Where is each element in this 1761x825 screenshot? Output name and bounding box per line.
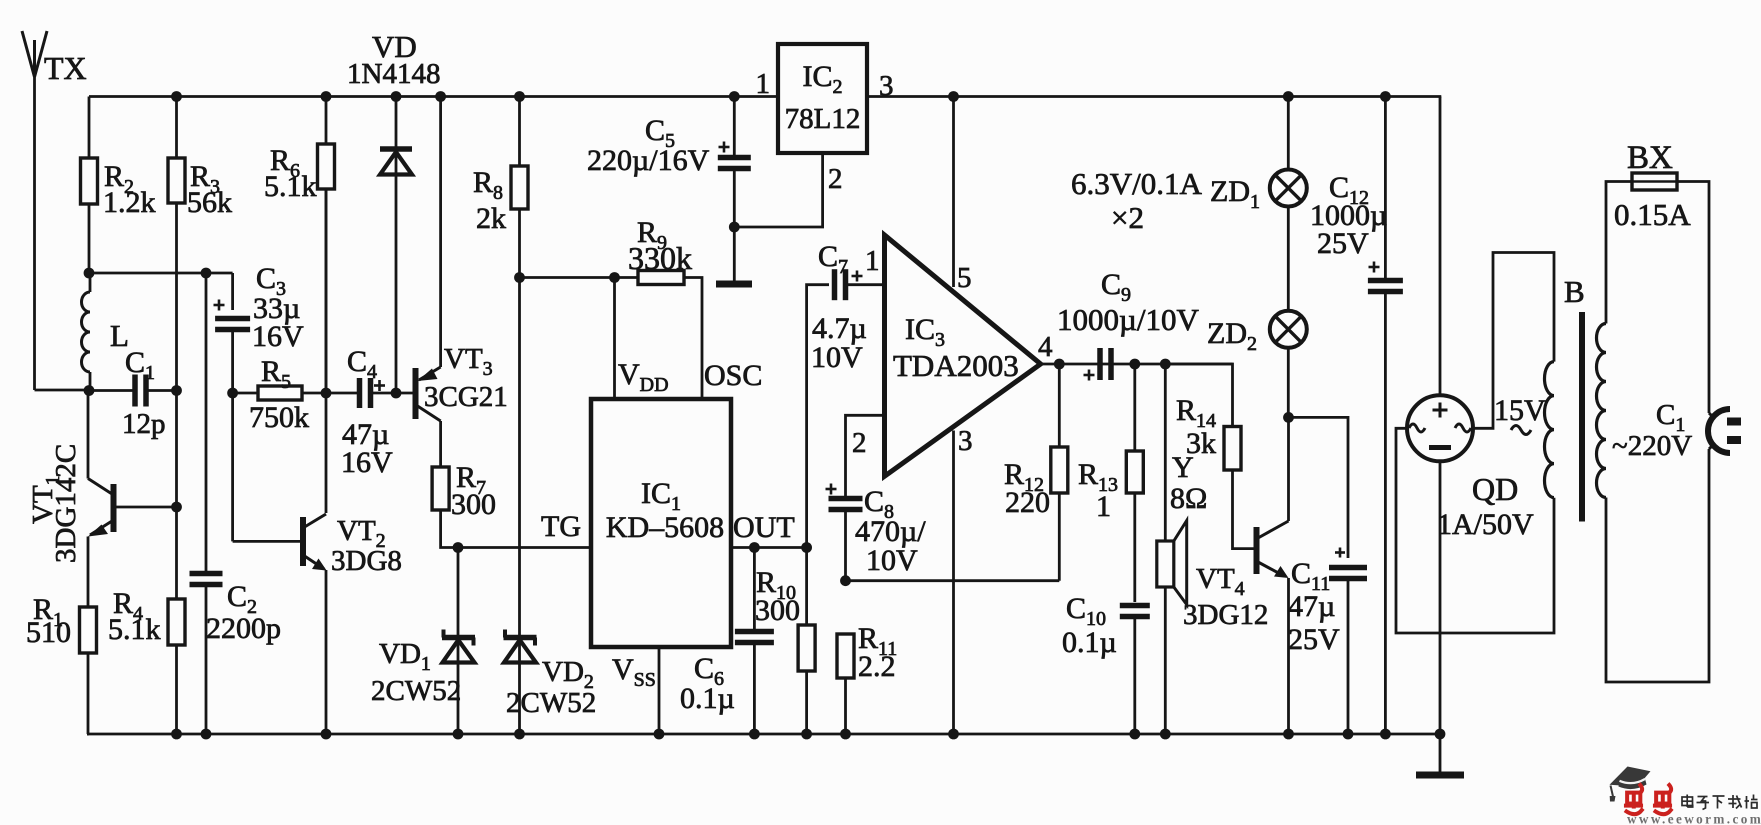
svg-text:78L12: 78L12: [785, 103, 861, 135]
capacitor C2: [205, 273, 208, 574]
transistor VT3: [396, 97, 441, 468]
transformer core: [1579, 312, 1585, 522]
resistor R11: [837, 634, 854, 678]
junction bottom rail C12: [1380, 729, 1391, 740]
inductor L: [82, 273, 91, 390]
junction bottom rail R4: [171, 729, 182, 740]
svg-text:3k: 3k: [1186, 427, 1216, 460]
svg-text:1: 1: [756, 68, 771, 100]
capacitor C8: [844, 457, 847, 499]
svg-text:2: 2: [828, 163, 843, 195]
svg-text:3DG142C: 3DG142C: [50, 444, 82, 563]
junction bottom rail VD1: [453, 729, 464, 740]
junction VT1 base: [171, 502, 182, 513]
svg-text:1.2k: 1.2k: [103, 186, 156, 219]
junction top rail pin5: [948, 91, 959, 102]
svg-text:KD–5608: KD–5608: [606, 511, 724, 544]
resistor R10: [805, 548, 808, 626]
junction C5 pin2: [729, 222, 740, 233]
junction C8 R11: [840, 575, 851, 586]
watermark bug 1: [1624, 784, 1643, 815]
svg-text:300: 300: [755, 594, 800, 627]
wire QD right to secondary top: [1473, 253, 1554, 429]
wire R9 to OSC: [684, 278, 702, 400]
svg-text:16V: 16V: [341, 446, 393, 479]
wire R7 to TG: [441, 510, 591, 548]
junction top rail VT3: [435, 91, 446, 102]
junction bottom rail VT2: [321, 729, 332, 740]
svg-text:1: 1: [1096, 490, 1111, 523]
junction top rail C5: [729, 91, 740, 102]
capacitor C4: [326, 392, 360, 395]
svg-text:3DG8: 3DG8: [331, 545, 402, 577]
speaker Y: [1157, 364, 1187, 734]
svg-text:220: 220: [1005, 486, 1050, 519]
op-amp U IC1 KD-5608 box: [591, 399, 731, 647]
svg-text:1: 1: [865, 245, 880, 277]
junction bottom rail C11: [1343, 729, 1354, 740]
svg-text:www.eeworm.com: www.eeworm.com: [1627, 812, 1761, 825]
junction antenna node: [84, 385, 95, 396]
svg-text:BX: BX: [1627, 140, 1673, 176]
svg-text:5: 5: [957, 262, 972, 294]
junction top rail R3: [171, 91, 182, 102]
wire primary top to fuse: [1606, 182, 1632, 324]
junction bottom rail VT4: [1283, 729, 1294, 740]
svg-text:TDA2003: TDA2003: [893, 348, 1019, 383]
wire R8 to R9: [520, 276, 639, 279]
svg-text:6.3V/0.1A: 6.3V/0.1A: [1071, 166, 1203, 201]
zener diode VD1: [442, 548, 475, 735]
capacitor C11: [1289, 417, 1368, 734]
junction VT4 collector: [1283, 412, 1294, 423]
svg-text:10V: 10V: [866, 544, 918, 577]
wire top rail left: [89, 95, 778, 98]
wire pin5 IC3: [952, 97, 955, 288]
wire bottom rail: [87, 733, 1441, 736]
wire QD left to secondary bottom: [1396, 428, 1554, 633]
wire top rail right: [867, 95, 1441, 98]
watermark site name: [1682, 795, 1758, 810]
svg-text:2k: 2k: [476, 202, 506, 235]
capacitor C6: [753, 548, 756, 632]
svg-text:3CG21: 3CG21: [424, 381, 508, 413]
transistor VT2: [233, 393, 327, 734]
label ac tilde: [1511, 426, 1531, 435]
plug: [1708, 409, 1741, 453]
svg-text:3DG12: 3DG12: [1183, 599, 1268, 631]
fuse BX: [1632, 173, 1677, 190]
ground C5 negative bar: [716, 281, 752, 288]
diode VD: [380, 97, 412, 393]
svg-text:2.2: 2.2: [858, 650, 896, 683]
resistor R5: [233, 392, 258, 395]
svg-text:10V: 10V: [811, 341, 863, 374]
wire C5 to ground bar: [733, 227, 736, 281]
svg-text:47µ: 47µ: [1288, 590, 1335, 623]
junction bottom rail R11: [840, 729, 851, 740]
wire R1 to rail: [87, 653, 90, 734]
wire feedback: [846, 579, 1060, 582]
junction bottom rail VD2: [514, 729, 525, 740]
resistor R13: [1133, 364, 1136, 451]
capacitor C5: [733, 97, 736, 158]
wire VDD pin: [613, 278, 616, 400]
junction top rail C12: [1380, 91, 1391, 102]
wire IC2 pin2: [734, 153, 822, 227]
junction out speaker: [1160, 359, 1171, 370]
svg-text:1A/50V: 1A/50V: [1437, 508, 1534, 541]
capacitor C9: [1097, 348, 1103, 380]
svg-text:3: 3: [958, 425, 973, 457]
transformer primary winding: [1597, 324, 1607, 498]
svg-text:510: 510: [26, 616, 71, 649]
svg-text:750k: 750k: [249, 401, 309, 434]
wire pin2 IC3: [846, 415, 885, 457]
capacitor C1: [89, 389, 135, 392]
wire R3 column: [175, 391, 178, 600]
svg-text:OUT: OUT: [733, 511, 795, 544]
junction bottom rail VSS: [654, 729, 665, 740]
junction R8 bottom: [514, 272, 525, 283]
svg-text:25V: 25V: [1317, 227, 1369, 260]
resistor R9: [638, 271, 684, 285]
svg-text:8Ω: 8Ω: [1170, 482, 1207, 515]
svg-text:330k: 330k: [628, 240, 692, 276]
junction bottom rail C6: [749, 729, 760, 740]
junction VDD node: [609, 272, 620, 283]
svg-text:0.15A: 0.15A: [1614, 197, 1691, 232]
lamp ZD1: [1270, 97, 1307, 311]
capacitor C12: [1384, 97, 1387, 281]
junction bottom rail C10: [1129, 729, 1140, 740]
wire IC3 output: [1041, 363, 1233, 366]
resistor R7: [432, 467, 449, 510]
resistor R8: [518, 97, 521, 167]
wire VSS to rail: [658, 647, 661, 734]
resistor R1: [80, 607, 97, 653]
junction top rail ZD1: [1283, 91, 1294, 102]
svg-text:220µ/16V: 220µ/16V: [587, 144, 710, 177]
junction out R13: [1129, 359, 1140, 370]
wire R14 to VT4 base: [1233, 470, 1255, 549]
junction VT3 base node: [391, 388, 402, 399]
transformer secondary winding: [1545, 362, 1555, 498]
capacitor C3: [214, 273, 251, 393]
svg-text:OSC: OSC: [704, 359, 762, 392]
svg-text:25V: 25V: [1288, 623, 1340, 656]
junction top rail R8: [514, 91, 525, 102]
lamp ZD2: [1270, 311, 1307, 418]
resistor R12: [1058, 364, 1061, 447]
resistor R14: [1224, 427, 1241, 471]
svg-text:16V: 16V: [252, 320, 304, 353]
junction bottom rail R10: [801, 729, 812, 740]
svg-text:5.1k: 5.1k: [264, 170, 317, 203]
op-amp IC3 TDA2003: [885, 235, 1041, 476]
resistor R2: [88, 97, 91, 159]
svg-text:TX: TX: [44, 50, 87, 86]
antenna TX: [22, 31, 89, 390]
transistor VT4: [1257, 417, 1289, 734]
svg-text:B: B: [1564, 274, 1585, 309]
junction bottom rail C2: [201, 729, 212, 740]
svg-text:0.1µ: 0.1µ: [1062, 626, 1117, 659]
resistor R3: [175, 97, 178, 159]
svg-text:2200p: 2200p: [206, 612, 281, 645]
svg-text:12p: 12p: [122, 408, 166, 440]
svg-text:2CW52: 2CW52: [371, 675, 461, 707]
watermark cap logo: [1610, 767, 1651, 802]
svg-text:5.1k: 5.1k: [108, 613, 161, 646]
op-amp U IC2 78L12 box: [778, 44, 867, 153]
junction C3 bottom: [227, 388, 238, 399]
junction C1 right: [171, 385, 182, 396]
junction out R12: [1054, 359, 1065, 370]
svg-text:QD: QD: [1472, 471, 1518, 507]
wire OUT: [731, 546, 807, 549]
junction bottom rail speaker: [1160, 729, 1171, 740]
svg-text:15V: 15V: [1494, 394, 1546, 427]
junction bottom rail ground: [1435, 729, 1446, 740]
capacitor C7: [807, 269, 885, 547]
svg-text:1N4148: 1N4148: [347, 58, 440, 90]
bridge rectifier QD: [1407, 97, 1473, 735]
watermark bug 2: [1653, 784, 1672, 815]
svg-text:56k: 56k: [187, 186, 232, 219]
svg-text:~220V: ~220V: [1612, 430, 1692, 462]
ground: [1439, 734, 1442, 772]
wire R6 column: [325, 189, 328, 513]
svg-text:×2: ×2: [1111, 200, 1144, 235]
svg-text:3: 3: [879, 70, 894, 102]
svg-text:300: 300: [451, 488, 496, 521]
resistor R6: [325, 97, 328, 145]
svg-text:TG: TG: [541, 510, 581, 543]
wire node 273: [89, 272, 233, 275]
svg-text:4: 4: [1038, 331, 1053, 363]
svg-text:1000µ/10V: 1000µ/10V: [1057, 302, 1199, 337]
junction top rail VD: [391, 91, 402, 102]
svg-text:2: 2: [852, 427, 867, 459]
wire fuse to plug: [1677, 182, 1709, 414]
junction R5 C4 node: [321, 388, 332, 399]
junction C2 top: [201, 268, 212, 279]
resistor R4: [168, 599, 185, 645]
junction L top: [84, 268, 95, 279]
zener diode VD2: [504, 278, 537, 735]
transistor VT1: [88, 391, 177, 608]
junction top rail R6: [321, 91, 332, 102]
junction OUT R10: [801, 542, 812, 553]
junction TG VD1: [453, 542, 464, 553]
svg-text:2CW52: 2CW52: [506, 687, 596, 719]
wire plug to primary bottom: [1606, 449, 1709, 682]
wire pin3 IC3: [952, 431, 955, 735]
junction bottom rail pin3: [948, 729, 959, 740]
junction OUT C6: [749, 542, 760, 553]
capacitor C10: [1120, 603, 1150, 609]
wire to R14: [1165, 364, 1232, 427]
svg-text:0.1µ: 0.1µ: [680, 682, 735, 715]
